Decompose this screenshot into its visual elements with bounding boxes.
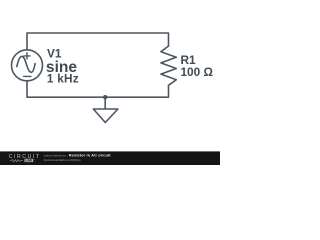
svg-text:1 kHz: 1 kHz <box>47 72 79 86</box>
svg-text:100 Ω: 100 Ω <box>181 65 213 79</box>
svg-text:LAB: LAB <box>25 159 33 163</box>
svg-text:http://www.circuitlab.com/c/28: http://www.circuitlab.com/c/28p6wy <box>44 158 82 162</box>
